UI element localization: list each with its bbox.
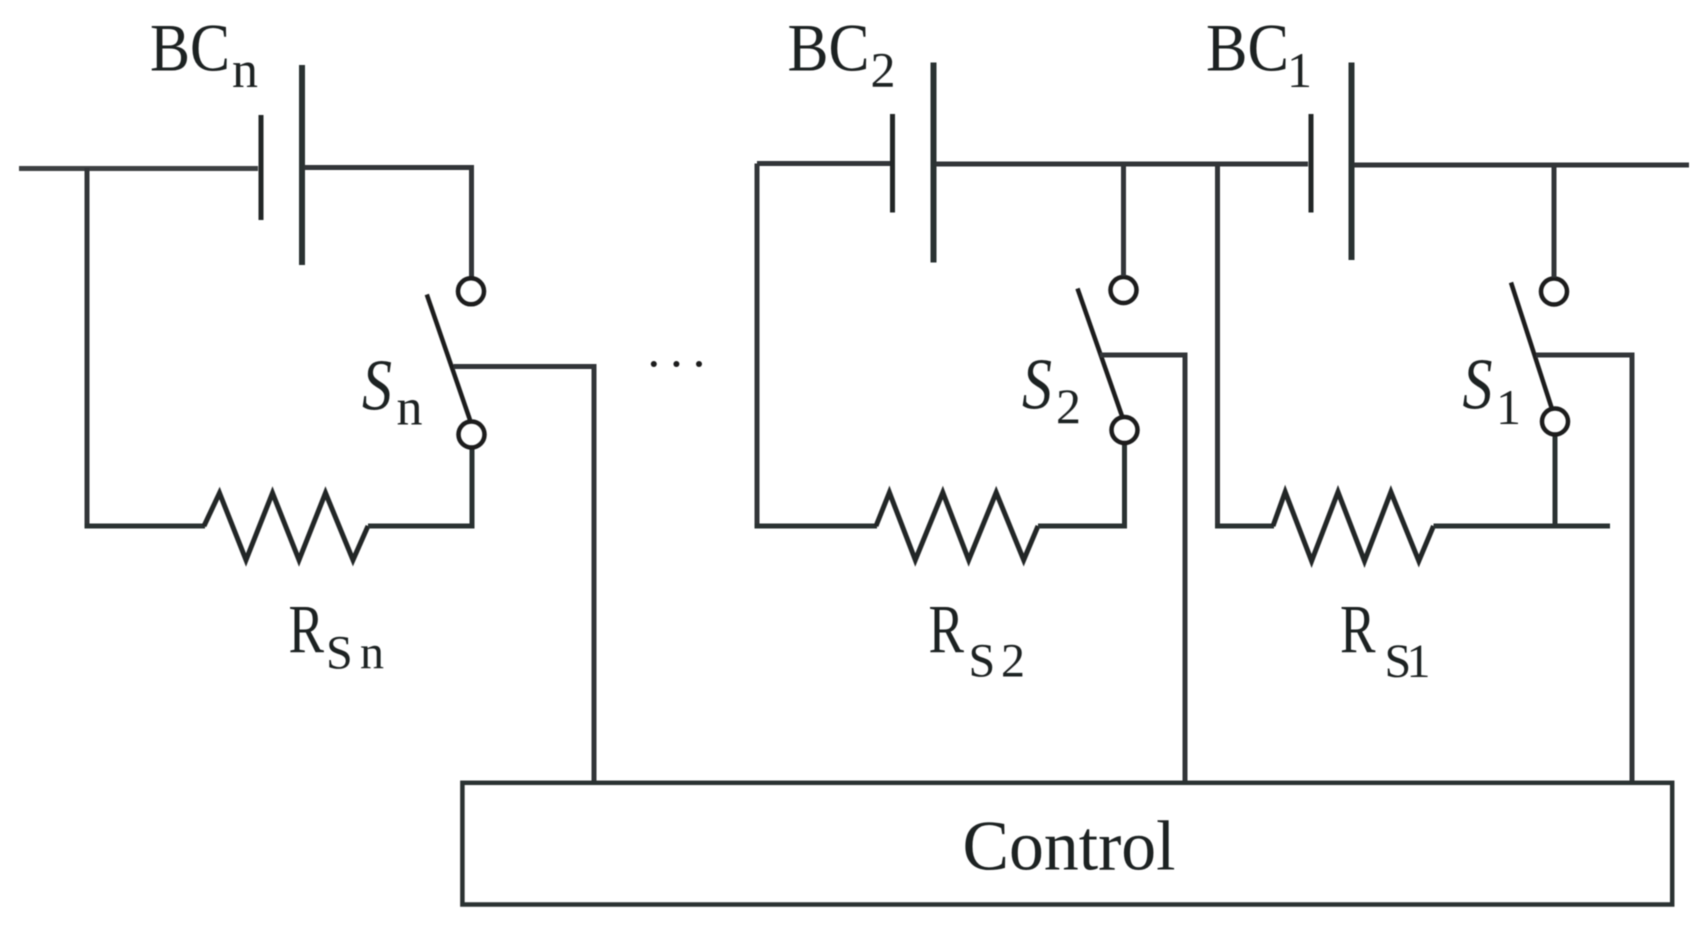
switch S1 bottom contact (1542, 409, 1568, 435)
svg-text:S: S (1463, 344, 1493, 425)
wire top bus cell n (19, 166, 258, 171)
wire resistor to switch cell 2 (1038, 444, 1125, 526)
wire top bus cell 1 right (1354, 163, 1689, 168)
svg-text:n: n (397, 380, 423, 437)
wire S1 drop from bus (1552, 165, 1557, 278)
wire bottom cell n (85, 524, 206, 529)
control box (462, 783, 1672, 905)
battery BC1 short plate (1309, 114, 1314, 213)
svg-text:BC: BC (150, 10, 230, 86)
svg-text:n: n (232, 42, 258, 99)
svg-text:1: 1 (1496, 379, 1521, 435)
switch Sn bottom contact (459, 422, 485, 448)
wire S2 drop from bus (1121, 164, 1126, 276)
wire left branch cell n (85, 168, 90, 526)
battery BC2 short plate (890, 114, 895, 213)
svg-text:2: 2 (1056, 378, 1081, 434)
switch S1 lever (1511, 283, 1552, 410)
switch S2 bottom contact (1112, 417, 1138, 443)
wire top bus cell 2 (757, 161, 890, 166)
wire left branch cell 2 (755, 164, 760, 527)
wire bottom cell 1 (1215, 524, 1274, 529)
wire control Sn (454, 367, 595, 784)
switch S2 top contact (1111, 277, 1137, 303)
wire resistor to stub cell 1 (1434, 524, 1611, 529)
svg-text:BC: BC (788, 10, 870, 86)
switch S2 lever (1078, 289, 1123, 417)
battery BCn short plate (259, 115, 264, 220)
resistor RS2 (876, 493, 1038, 561)
battery BCn tall plate (299, 65, 305, 265)
svg-text:Control: Control (963, 807, 1176, 885)
wire bottom cell 2 (755, 524, 878, 529)
wire switch S1 to bottom (1553, 435, 1558, 526)
resistor RS1 (1273, 492, 1434, 561)
svg-text:2: 2 (871, 42, 896, 98)
battery BC2 tall plate (931, 63, 937, 263)
svg-text:BC: BC (1206, 10, 1289, 86)
node dots ellipsis (651, 361, 657, 367)
wire left branch cell 1 (1215, 164, 1220, 526)
battery BC1 tall plate (1349, 63, 1355, 261)
svg-text:S: S (362, 345, 392, 426)
wire top bus cell n right (304, 168, 472, 278)
resistor RSn (204, 493, 368, 560)
switch Sn top contact (458, 278, 484, 304)
svg-text:S: S (1022, 344, 1052, 425)
svg-text:S1: S1 (1385, 635, 1431, 688)
wire control S1 (1536, 355, 1632, 783)
svg-text:R: R (289, 592, 325, 668)
svg-text:1: 1 (1287, 42, 1312, 98)
svg-text:R: R (1340, 592, 1376, 668)
wire resistor to switch cell n (368, 448, 472, 526)
wire control S2 (1100, 355, 1185, 783)
wire top bus cell 2 to cell 1 (936, 162, 1308, 167)
svg-text:R: R (929, 592, 965, 668)
switch S1 top contact (1541, 279, 1567, 305)
switch Sn lever (427, 295, 470, 421)
